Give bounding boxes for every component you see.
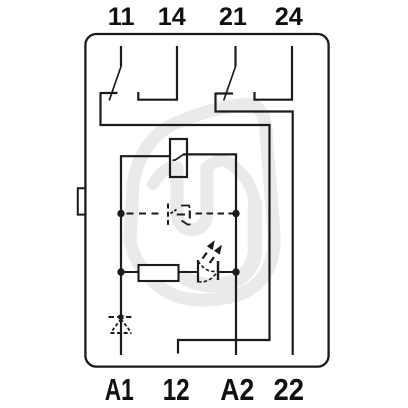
terminal 11 stub — [120, 46, 122, 67]
wire A1 branch — [121, 156, 170, 355]
relay coil — [170, 139, 187, 177]
left tab — [78, 188, 85, 214]
wire dashed row — [127, 213, 237, 215]
resistor R1 — [139, 265, 179, 281]
watermark logo — [130, 104, 274, 300]
node A2-led — [232, 268, 239, 275]
svg-text:12: 12 — [163, 373, 190, 407]
LED D1 — [198, 260, 218, 283]
wire A2 branch — [183, 154, 236, 355]
node A1-res — [117, 268, 124, 275]
svg-text:A1: A1 — [105, 373, 134, 407]
svg-text:21: 21 — [219, 3, 247, 31]
contact K2 blade — [224, 67, 236, 101]
diode V1 (dashed, on middle branch) — [168, 204, 191, 226]
junction dots — [117, 210, 239, 276]
terminal 21 stub — [234, 46, 236, 67]
suppressor diode V2 (dashed) — [109, 315, 134, 333]
LED arrows — [203, 242, 222, 263]
contact K2 NC seat — [216, 92, 234, 94]
svg-text:14: 14 — [158, 3, 186, 31]
node A2-dashed — [232, 210, 239, 217]
svg-text:22: 22 — [274, 373, 305, 407]
svg-text:24: 24 — [275, 3, 303, 31]
contact K1 NC seat — [101, 92, 118, 94]
enclosure outline — [85, 34, 328, 367]
wire 12 route — [101, 92, 270, 354]
terminal 24 stub and NO seat — [255, 46, 293, 100]
wire resistor row — [121, 271, 236, 273]
svg-text:11: 11 — [108, 3, 135, 31]
svg-text:A2: A2 — [220, 373, 254, 407]
terminal 14 stub and NO seat — [138, 46, 177, 100]
wire 22 route — [216, 93, 293, 356]
node A1-dashed — [117, 210, 124, 217]
contact K1 blade — [109, 67, 121, 101]
